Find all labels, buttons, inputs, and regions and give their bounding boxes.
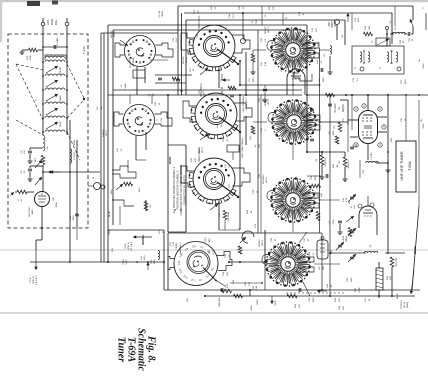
svg-text:T-69A: T-69A [408,161,412,171]
svg-text:STRAP WC-2: STRAP WC-2 [245,96,248,110]
svg-text:3.9K: 3.9K [256,285,258,290]
svg-text:UHF-VHF TUNER: UHF-VHF TUNER [400,151,404,180]
svg-text:1000: 1000 [154,259,156,265]
svg-text:Tuner: Tuner [116,337,127,362]
svg-text:T-27A: T-27A [82,46,86,54]
svg-text:ADJ: ADJ [208,238,211,242]
svg-text:WC-2: WC-2 [268,98,270,104]
svg-text:WC-5: WC-5 [106,129,108,135]
svg-text:470K: 470K [30,55,32,61]
svg-text:VERN: VERN [74,140,76,146]
svg-text:CONNECTED BY RIVETS: CONNECTED BY RIVETS [184,175,187,205]
svg-text:TO TEL: TO TEL [159,9,161,17]
svg-text:1000: 1000 [73,215,75,221]
svg-text:1M: 1M [356,144,358,147]
svg-text:GRY: GRY [391,137,393,142]
svg-text:6AF4: 6AF4 [31,209,34,215]
svg-text:140V: 140V [126,259,128,265]
svg-text:1000: 1000 [318,41,320,47]
svg-text:NOTE:: NOTE: [168,156,172,164]
svg-text:TO PIN 8: TO PIN 8 [401,300,403,310]
svg-text:3-30: 3-30 [346,197,348,202]
svg-text:22K: 22K [369,26,371,30]
svg-text:GRN: GRN [109,229,111,234]
svg-text:INPUT: INPUT [332,20,334,27]
svg-text:6BQ7A: 6BQ7A [342,104,345,112]
svg-text:6.3 V A.C.: 6.3 V A.C. [35,275,38,285]
svg-text:UHF OSC: UHF OSC [29,207,31,217]
svg-text:140V: 140V [423,63,425,69]
svg-text:OF V3: OF V3 [404,301,406,308]
svg-text:HIGH CHANNEL: HIGH CHANNEL [242,95,245,112]
svg-text:TOP: TOP [261,37,263,42]
svg-text:GRN-BLK: GRN-BLK [219,297,221,307]
svg-text:BLUE: BLUE [109,211,111,217]
svg-text:RF AMP: RF AMP [334,103,337,112]
svg-text:4.5K: 4.5K [233,279,235,284]
svg-text:ANT.: ANT. [46,19,50,25]
svg-text:BACK: BACK [59,95,62,101]
svg-text:GAB: GAB [124,83,127,88]
svg-text:1000: 1000 [253,77,255,83]
svg-text:ANT: ANT [328,21,331,26]
svg-text:1500: 1500 [111,189,113,195]
svg-text:3.9K: 3.9K [249,281,251,286]
svg-text:OSC: OSC [205,237,207,242]
svg-text:4700: 4700 [333,219,335,225]
svg-text:1000: 1000 [333,130,335,136]
svg-text:3-30: 3-30 [346,235,348,240]
svg-text:1000: 1000 [144,255,146,261]
svg-text:1500: 1500 [313,297,315,303]
svg-text:260V: 260V [423,123,425,129]
svg-text:GRN: GRN [275,300,277,305]
svg-text:WC-3: WC-3 [266,176,268,182]
svg-text:L3 680: L3 680 [371,152,373,159]
svg-text:GAB: GAB [132,57,135,62]
svg-text:3.3K: 3.3K [265,61,267,66]
svg-text:BACK: BACK [198,146,201,152]
svg-text:FRONT: FRONT [183,56,185,64]
svg-text:BACK WC-4: BACK WC-4 [179,242,182,254]
svg-text:(SND): (SND) [407,302,409,308]
svg-text:FRONT: FRONT [259,239,261,247]
svg-text:L7 4700: L7 4700 [74,151,76,160]
svg-text:WC-1: WC-1 [268,26,270,32]
svg-text:FM43: FM43 [60,121,62,127]
svg-text:WC-6: WC-6 [186,56,188,62]
svg-text:1.5-7: 1.5-7 [193,37,195,43]
svg-text:BAL.: BAL. [54,19,58,25]
svg-text:15K: 15K [323,266,325,270]
svg-text:1500: 1500 [139,187,141,193]
svg-text:VERN: VERN [176,243,178,249]
svg-text:FRONT: FRONT [60,66,62,74]
svg-text:BROWN: BROWN [142,235,145,245]
svg-text:1.5-7: 1.5-7 [233,13,235,19]
svg-text:100K: 100K [359,287,361,293]
svg-text:WHT: WHT [35,157,37,162]
svg-text:FRONT: FRONT [265,26,267,34]
svg-text:TOP: TOP [256,19,258,24]
svg-text:6.3V: 6.3V [213,249,215,254]
svg-text:R15 47K: R15 47K [396,257,398,266]
svg-text:FRONT: FRONT [111,30,113,38]
svg-text:TO B+: TO B+ [123,258,125,265]
svg-text:HIGH CHAN FOR ALL: HIGH CHAN FOR ALL [241,137,244,158]
svg-text:1000: 1000 [405,79,407,85]
svg-text:1M: 1M [337,164,339,167]
svg-text:6.3 V A.C.: 6.3 V A.C. [130,241,133,251]
svg-text:1000: 1000 [358,17,360,23]
svg-text:L1 GAB: L1 GAB [56,38,59,46]
svg-text:BACK WC-1: BACK WC-1 [198,15,201,29]
svg-text:V2A: V2A [280,67,283,72]
svg-text:WVA: WVA [55,202,58,207]
svg-text:C11: C11 [178,260,181,265]
svg-text:10K: 10K [321,193,323,197]
svg-text:300Ω: 300Ω [50,19,54,25]
svg-text:1000: 1000 [315,175,317,181]
svg-text:47K: 47K [195,158,197,162]
svg-text:WHITE: WHITE [414,246,417,254]
svg-text:(PIN 1): (PIN 1) [33,276,35,283]
svg-text:1.5-7: 1.5-7 [176,37,178,43]
svg-text:TERM: TERM [162,11,164,17]
svg-text:200 WVA: 200 WVA [227,212,230,222]
svg-text:(PIN 1): (PIN 1) [128,242,130,249]
svg-text:BLUE: BLUE [397,293,399,299]
svg-text:450K,5%: 450K,5% [348,160,350,169]
svg-text:TO B-: TO B- [30,277,32,283]
svg-text:TO B-: TO B- [125,243,127,249]
svg-text:WC-6: WC-6 [114,30,116,36]
svg-text:GRN: GRN [251,305,253,310]
svg-text:WC-4: WC-4 [262,239,264,245]
svg-text:470K,5%: 470K,5% [325,158,327,167]
svg-text:BLACK: BLACK [102,129,105,137]
svg-text:WC-3: WC-3 [202,146,204,152]
svg-text:1500: 1500 [351,277,353,283]
svg-text:4.5K: 4.5K [227,283,229,288]
svg-text:BRN: BRN [257,299,259,304]
svg-text:1000: 1000 [323,77,325,83]
svg-text:5-25: 5-25 [173,241,175,246]
